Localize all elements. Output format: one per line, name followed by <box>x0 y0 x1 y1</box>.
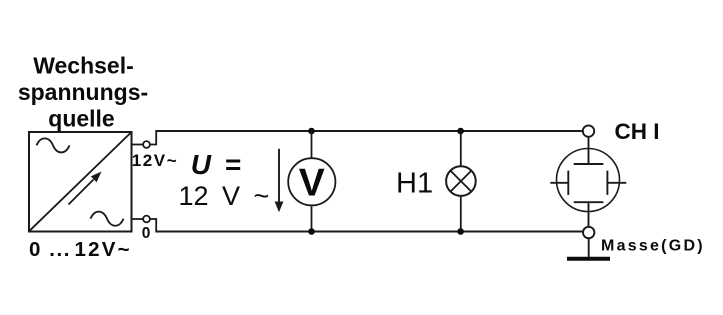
wire: 12V~ terminal to top rail jog <box>150 131 157 145</box>
terminal: 12V~ output <box>143 141 150 148</box>
svg-text:Masse(GD): Masse(GD) <box>601 238 705 255</box>
svg-text:12V~: 12V~ <box>75 238 132 261</box>
wire: voltmeter to bottom junction <box>311 206 313 231</box>
AC source G1: diagonal line <box>30 133 132 231</box>
svg-text:0: 0 <box>29 238 40 261</box>
node: lamp bottom junction <box>457 228 464 235</box>
svg-text:0: 0 <box>142 225 151 242</box>
svg-text:Wechsel-: Wechsel- <box>33 53 134 79</box>
oscilloscope CRT: right deflection plate <box>606 171 608 195</box>
lamp H1: cross stroke 2 <box>450 171 471 192</box>
wire: CH I terminal into CRT <box>588 137 590 164</box>
AC source G1: top sine symbol <box>37 138 70 152</box>
oscilloscope CRT: top deflection plate <box>574 163 604 165</box>
wire: Masse terminal to ground <box>588 239 590 258</box>
svg-text:V: V <box>299 162 325 205</box>
oscilloscope CRT: left deflection plate <box>567 171 569 195</box>
svg-text:quelle: quelle <box>48 106 114 132</box>
wire: top rail <box>155 130 582 132</box>
lamp H1: circle <box>446 166 476 196</box>
svg-text:...: ... <box>49 238 71 261</box>
svg-text:U =: U = <box>191 149 245 180</box>
wire: junction to voltmeter <box>311 131 313 158</box>
wire: junction to lamp <box>460 131 462 166</box>
terminal: Masse(GD) <box>583 227 594 238</box>
wire: CRT bottom plate to Masse terminal <box>588 202 590 226</box>
oscilloscope CRT: left plate lead <box>550 182 568 184</box>
AC source G1: bottom sine symbol <box>91 212 124 226</box>
wire: bottom rail <box>155 231 582 233</box>
terminal: 0 output <box>143 216 150 223</box>
terminal: CH I input <box>583 125 594 136</box>
svg-text:H1: H1 <box>396 167 433 199</box>
svg-text:12 V ~: 12 V ~ <box>179 181 270 211</box>
AC source G1: variability arrow <box>69 180 94 205</box>
wire: 0 terminal to bottom rail jog <box>150 219 157 232</box>
svg-text:CH I: CH I <box>615 119 660 144</box>
ground symbol <box>567 257 610 261</box>
node: voltmeter bottom junction <box>308 228 315 235</box>
node: voltmeter top junction <box>308 128 315 135</box>
wire: lamp to bottom junction <box>460 197 462 232</box>
svg-text:12V~: 12V~ <box>132 151 178 170</box>
AC source G1: box outline <box>29 132 132 232</box>
svg-text:spannungs-: spannungs- <box>18 79 148 105</box>
voltage reference arrow (downward) <box>278 149 280 203</box>
wire: stub from box to 0 terminal <box>132 218 144 220</box>
label: Wechselspannungsquelle (source caption) <box>18 53 148 132</box>
oscilloscope CRT: envelope circle <box>557 149 620 212</box>
lamp H1: cross stroke 1 <box>450 171 471 192</box>
oscilloscope CRT: bottom deflection plate <box>574 201 604 203</box>
voltmeter V: circle <box>288 158 335 205</box>
node: lamp top junction <box>457 128 464 135</box>
oscilloscope CRT: right plate lead <box>607 182 626 184</box>
wire: stub from box to 12V~ terminal <box>132 144 144 146</box>
